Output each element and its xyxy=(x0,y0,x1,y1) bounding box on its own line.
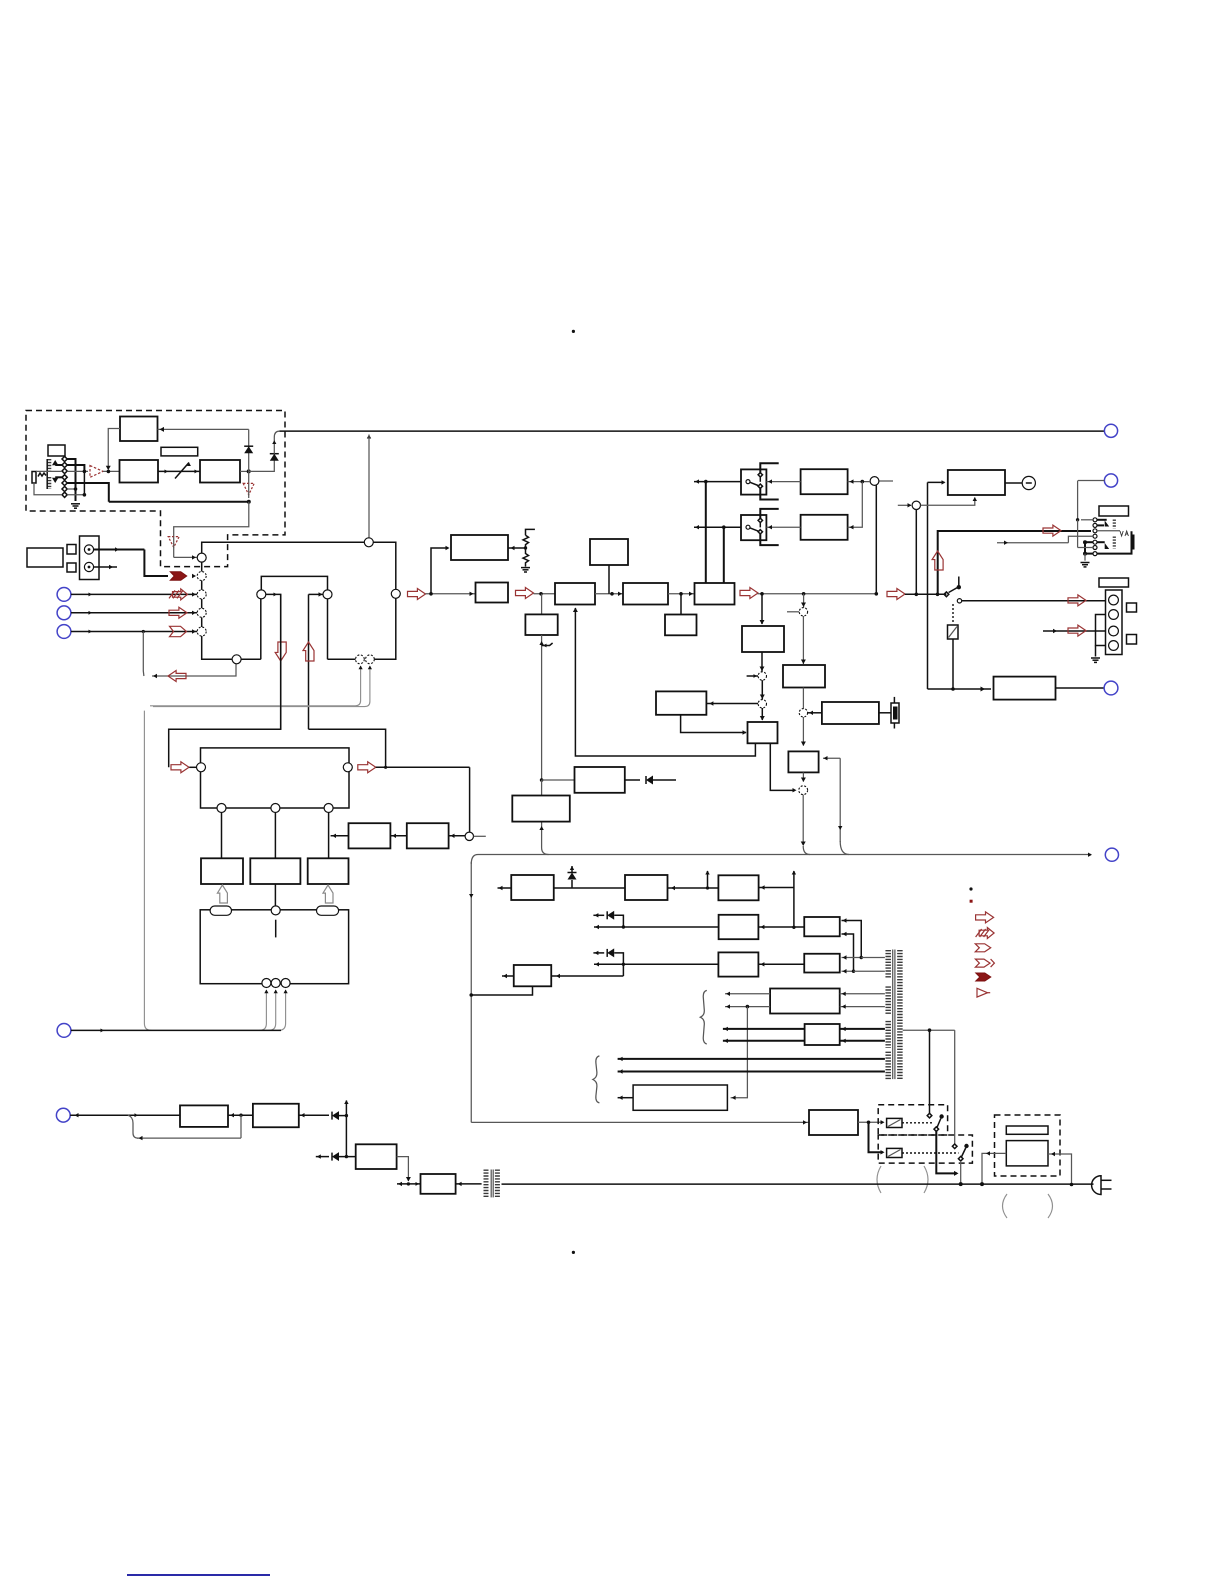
connector SP link bracket xyxy=(1096,615,1106,646)
wire Y1 bypass xyxy=(128,1115,138,1138)
node circles CPU bottom xyxy=(262,979,271,988)
arrow open chain 2 xyxy=(516,588,534,599)
dashed box RL1 xyxy=(878,1105,947,1135)
wire rail U2 xyxy=(594,963,718,965)
wire T input xyxy=(551,975,623,977)
block P2b xyxy=(718,875,758,900)
legend arrow chevron double xyxy=(975,959,990,967)
wire B13 out left rail xyxy=(575,608,755,756)
jack ground xyxy=(1084,554,1086,561)
block power amp xyxy=(948,470,1005,495)
node circle dashed q1 xyxy=(799,608,807,616)
block EQ box xyxy=(201,748,350,808)
node circles selector left edge xyxy=(197,553,206,562)
wire G diode out xyxy=(625,779,640,781)
wire feedback node circle xyxy=(898,504,911,506)
wire Y1-Y2 xyxy=(228,1114,253,1116)
block B14 xyxy=(783,665,825,688)
relay RL1 coil xyxy=(887,1118,902,1127)
wire S2 to headphone connector xyxy=(962,600,1106,602)
block fader B xyxy=(250,858,300,884)
selector wiper triangle down xyxy=(52,478,58,483)
arrow open chain 1 xyxy=(408,589,426,600)
red triangle down input1 xyxy=(168,537,179,548)
node circles EQ bottom xyxy=(217,804,226,813)
arrow gray up fader C xyxy=(323,885,333,903)
relay RL1 link dotted xyxy=(902,1122,934,1124)
jack c5 wiring xyxy=(1085,541,1093,543)
wire chain x803 down xyxy=(803,594,805,608)
wire wiper bus xyxy=(83,471,85,494)
wire power amp out xyxy=(1005,482,1022,484)
block function selector outline xyxy=(202,542,396,589)
wire amp line y689 xyxy=(927,482,929,689)
stub P1 left xyxy=(498,887,512,889)
block CPU xyxy=(200,910,348,984)
arrow hatched input 2 xyxy=(173,589,188,600)
wire mix down to chain xyxy=(875,485,877,593)
resistor divider R-B5 xyxy=(508,547,526,549)
relay RL2 coil xyxy=(887,1148,902,1157)
wire P1-P2a with diode xyxy=(554,887,625,889)
node circle EQ in xyxy=(197,763,206,772)
selector inner bridge xyxy=(260,599,262,659)
switch block SW-B xyxy=(741,515,766,540)
wire Y3 out xyxy=(397,1157,409,1181)
wire ctl stub xyxy=(474,835,486,837)
jack c5-c7 bus xyxy=(1084,542,1086,553)
wire B8 drop xyxy=(608,565,610,594)
relay RL2 link dotted xyxy=(902,1152,959,1154)
wire SW-A left xyxy=(694,481,741,483)
wire CPU risers xyxy=(259,990,266,1030)
wire PSU unit right to AC xyxy=(1048,1154,1072,1185)
wire from CPU riser left xyxy=(144,711,151,1031)
wire J-OUT2 blue lead xyxy=(1104,474,1117,487)
arrow open up jack xyxy=(932,551,943,570)
block B12 xyxy=(742,626,784,652)
AC line wire xyxy=(397,1183,421,1185)
block fader C xyxy=(308,858,349,884)
jack c1 wiring xyxy=(1081,519,1093,521)
legend dot black xyxy=(969,887,972,890)
stub arrow up mid xyxy=(707,871,709,888)
top bus tap arrow at x369 xyxy=(367,435,371,439)
phono jack body xyxy=(80,536,100,580)
connector SP ground xyxy=(1095,646,1097,657)
bracket SW-A top xyxy=(760,463,778,472)
block label A3 xyxy=(161,447,198,456)
block A4 xyxy=(200,460,240,483)
bracket SW-B top xyxy=(760,509,778,518)
wire EQ fader drops xyxy=(221,813,223,859)
wire RV1 to d7 xyxy=(34,483,62,495)
wire play in up xyxy=(308,594,310,729)
resistor W squiggle xyxy=(38,473,46,477)
wire drop to B12 xyxy=(761,594,763,624)
wire B16 down to bus xyxy=(802,772,804,781)
wire chain seg4 xyxy=(668,593,695,595)
wire node down to chain xyxy=(915,510,917,595)
page mark dot top xyxy=(572,330,575,333)
connector SP squares xyxy=(1127,603,1137,612)
mains switch S-M1 xyxy=(927,1113,932,1118)
wire monitor risers xyxy=(150,666,361,706)
wire T1 primary tap xyxy=(903,1029,955,1031)
selector switch S1 wafer strips xyxy=(47,459,51,471)
block B15 osc xyxy=(822,702,879,724)
block PSU unit xyxy=(1006,1141,1048,1166)
wire node up to D1 xyxy=(248,446,250,471)
block B9 xyxy=(623,583,668,605)
wire d2 to amp node xyxy=(67,465,84,471)
wire x541 drop xyxy=(541,594,543,615)
CPU inner tick xyxy=(275,920,277,938)
wire P2a-P2b xyxy=(668,887,719,889)
wire U2 right xyxy=(758,963,804,965)
node circle selector bottom xyxy=(232,655,241,664)
block PW driver xyxy=(809,1110,858,1135)
wire B10 drop xyxy=(680,594,682,615)
wire P2b right riser xyxy=(759,887,794,889)
brace group X xyxy=(593,1056,600,1103)
wire S-M2 down to AC xyxy=(960,1161,962,1184)
wire d1 to ground rail xyxy=(67,459,75,501)
bracket SW-A bottom xyxy=(760,488,778,499)
block B7 xyxy=(555,583,595,605)
wire remote line xyxy=(70,1114,180,1116)
node circle EQ ctl xyxy=(465,832,473,840)
wire x541 low xyxy=(540,778,544,782)
diode D-P vertical xyxy=(571,880,573,888)
diode group1 xyxy=(593,914,604,916)
block U1 xyxy=(719,915,759,939)
dashed enclosure tuner section xyxy=(26,411,285,567)
connector J-OUT blue circle xyxy=(1104,424,1117,437)
wire B12 to node xyxy=(761,652,763,672)
jack VA text xyxy=(1120,531,1128,536)
node circle EQ out xyxy=(343,763,352,772)
wire into power amp xyxy=(928,481,945,483)
wire PW out xyxy=(858,1121,883,1123)
jack c7 wiring xyxy=(1085,553,1093,555)
block Y3 xyxy=(356,1144,397,1169)
block R-A xyxy=(801,469,848,494)
block G reg3 xyxy=(575,767,625,793)
wire E to D xyxy=(390,835,406,837)
diode group2 xyxy=(593,952,604,954)
wire F to G xyxy=(542,779,575,781)
arrow open sp3 xyxy=(1068,625,1086,636)
wire mains switch feeds xyxy=(929,1030,931,1113)
arrow open out of EQ xyxy=(358,762,376,773)
wire EQ out loop xyxy=(376,766,470,768)
wire BL bottom to B13 xyxy=(681,715,746,733)
variable attenuator xyxy=(158,470,200,472)
wire chain seg1 xyxy=(426,593,476,595)
wire node to input circle 1 xyxy=(174,502,249,537)
wire d6 to ground rail xyxy=(67,488,75,490)
legend dot red xyxy=(970,900,973,903)
connector J-REM blue circle xyxy=(56,1108,70,1122)
node circle dashed p2 xyxy=(758,700,766,708)
wire BL to p2 xyxy=(706,703,758,705)
pill CPU right xyxy=(317,906,339,915)
block BL xyxy=(656,691,706,714)
relay K1 coil xyxy=(948,625,959,639)
wire d5 thick to node xyxy=(67,483,109,502)
wire sp3 xyxy=(1043,630,1106,632)
wire chain seg3 xyxy=(595,593,623,595)
block headphone amp xyxy=(994,677,1056,700)
block fader A xyxy=(201,858,243,884)
connector J-PRE blue circle xyxy=(1104,681,1118,695)
arrow chevron input 4 xyxy=(170,626,187,636)
block Y4 xyxy=(421,1174,456,1194)
wire phono L to selector xyxy=(94,549,145,551)
jack c4 wiring xyxy=(1068,536,1093,543)
selector wiper triangle up xyxy=(52,460,58,465)
block H reg xyxy=(525,614,557,635)
phono jack pin R xyxy=(84,562,93,571)
wire D to fader C drop xyxy=(331,835,349,837)
block V heater xyxy=(770,989,840,1014)
headphone jack contacts xyxy=(1093,518,1097,522)
wire B13 out right xyxy=(770,743,795,790)
wire p1 to p2 xyxy=(761,680,763,699)
block R-B xyxy=(801,515,848,540)
transformer T2 xyxy=(484,1170,489,1198)
connector J-AC blue circle xyxy=(1105,848,1118,861)
node circle selector right xyxy=(391,589,400,598)
wire mute drops to B11 xyxy=(705,482,707,583)
ground R-B5 xyxy=(521,567,530,569)
jack c3 wiring xyxy=(1097,530,1120,532)
jack c2 wiring xyxy=(1097,524,1104,526)
wire Y2-diode xyxy=(299,1114,329,1116)
block U2b xyxy=(804,954,840,973)
tick node q1 xyxy=(787,611,799,613)
top bus wire to output jack xyxy=(279,430,1104,432)
wire to RL2 xyxy=(869,1122,884,1152)
wire V to X drop xyxy=(731,1007,748,1098)
wire circle to E xyxy=(449,835,466,837)
dashed box RL2 xyxy=(878,1135,972,1163)
node circle CPU top xyxy=(271,906,280,915)
wire S-M1 down xyxy=(936,1131,957,1173)
arrow gray up fader A xyxy=(217,885,227,903)
diode D2 xyxy=(270,453,279,455)
block P2a xyxy=(625,875,668,900)
parens PSU group xyxy=(1003,1194,1008,1218)
block W rect xyxy=(805,1024,840,1045)
block E muting xyxy=(407,823,449,848)
block B6 xyxy=(476,583,509,603)
connector J-IN2 blue circle xyxy=(57,588,71,602)
wire U1b taps xyxy=(842,921,862,958)
wire jack feed thick xyxy=(938,531,1091,594)
brace group V xyxy=(700,990,707,1044)
block B10 below xyxy=(665,615,697,636)
block A1 xyxy=(120,417,158,442)
node circle dashed q2 xyxy=(799,709,807,717)
wire rail U1 xyxy=(594,926,719,928)
wire W lines xyxy=(723,1028,805,1030)
connector J-IN4 blue circle xyxy=(57,625,71,639)
block small label above selector xyxy=(48,445,65,456)
wire q1 to B14 xyxy=(802,616,804,664)
switch tick x541 xyxy=(542,643,553,646)
pill CPU left xyxy=(210,906,231,915)
resistor RV1 vertical xyxy=(32,472,36,484)
crystal X1 xyxy=(879,712,891,714)
ground selector xyxy=(71,503,80,505)
wire rail to T xyxy=(471,986,532,995)
wire node down to limiter xyxy=(248,471,250,483)
transformer T1 primary winding xyxy=(897,950,903,1079)
node circle dashed p1 xyxy=(758,672,766,680)
wire heater lines xyxy=(618,1058,885,1060)
wire to B5 xyxy=(431,548,448,594)
wire PSU rail to PW xyxy=(471,1121,809,1123)
arrow open input 3 xyxy=(169,607,187,618)
legend arrow hatched xyxy=(979,928,994,939)
wire K1 to AC sense xyxy=(952,639,954,689)
node circle mix xyxy=(870,477,879,486)
diode D1 xyxy=(244,445,253,447)
wire B16 right input from bus xyxy=(823,757,840,759)
block B5 xyxy=(451,535,508,560)
legend triangle xyxy=(977,988,988,997)
connector J-CTL blue circle xyxy=(57,1024,71,1038)
switch S2 contact xyxy=(944,592,949,597)
jack sleeve strips xyxy=(1113,520,1116,529)
wire A4 out to node xyxy=(240,470,249,472)
arrow open up play xyxy=(303,642,314,661)
arrow open jack feed xyxy=(1043,525,1061,536)
node circles monitor pair xyxy=(356,655,365,664)
wire input 4 xyxy=(71,631,197,633)
wire p2 to B13 xyxy=(761,708,763,720)
arrow open into EQ xyxy=(171,762,189,773)
wire U2b taps xyxy=(842,957,862,959)
connector J-IN3 blue circle xyxy=(57,606,71,620)
AC plug P1 xyxy=(1092,1176,1101,1195)
block D loudness xyxy=(349,823,391,848)
wire tape return branch xyxy=(142,630,145,633)
diode D-Y2 row xyxy=(316,1156,329,1158)
wire B14 down xyxy=(802,688,804,709)
arrow open sp1 xyxy=(1068,595,1086,606)
block A2 xyxy=(120,460,159,483)
connector SP label box xyxy=(1099,578,1129,587)
block PSU label xyxy=(1006,1126,1048,1134)
wire B15 to q2 xyxy=(808,712,822,714)
wire amp out to A2 xyxy=(103,470,120,472)
speaker terminal minus xyxy=(1022,476,1035,489)
wire U1 right xyxy=(758,926,804,928)
stub T left xyxy=(502,975,514,977)
block P1 xyxy=(511,875,554,900)
wire R-A to SW-A xyxy=(766,481,800,483)
dashed box PSU unit xyxy=(995,1115,1061,1176)
arrow open left tape xyxy=(168,671,186,682)
wire ctl bus xyxy=(71,1029,281,1031)
wire SW-B left xyxy=(694,526,741,528)
wire main gray amp input xyxy=(36,470,62,472)
transformer T1 core xyxy=(892,950,894,1080)
wire chain seg2 xyxy=(534,593,556,595)
wire Y4 to T2 xyxy=(456,1183,482,1185)
node circle selector top xyxy=(364,538,373,547)
connector SP body xyxy=(1106,590,1123,655)
switch block SW-A xyxy=(741,469,766,494)
jack c6 wiring xyxy=(1077,520,1079,548)
wire q2 to B16 xyxy=(802,717,804,746)
arrow open down rec xyxy=(275,642,286,661)
wire PSU unit left to AC xyxy=(982,1153,1006,1184)
wire play loop right xyxy=(309,729,386,767)
wire stub right of mix circle xyxy=(879,480,893,482)
node circle dashed q3 xyxy=(799,786,808,795)
wire A1 feedback left xyxy=(108,429,120,469)
wire chain seg5 xyxy=(758,593,877,595)
block Y1 xyxy=(180,1105,228,1127)
AC line wire main xyxy=(502,1183,1094,1185)
wire phono R stub xyxy=(94,566,117,568)
block T vreg xyxy=(514,965,552,986)
blue footer underline xyxy=(127,1574,270,1576)
wire chain seg6 xyxy=(905,593,946,595)
wire selector top to bus xyxy=(368,435,370,538)
block B8 above xyxy=(590,539,628,565)
wire fader B to CPU xyxy=(274,884,276,906)
block U2 xyxy=(718,952,758,976)
arrow open chain 4 xyxy=(887,589,905,600)
wire rec out down xyxy=(266,594,281,729)
wire D2 branch xyxy=(249,459,275,472)
relay K1 dashed link xyxy=(952,604,954,624)
mains switch S-M2 xyxy=(952,1144,957,1149)
phono jack pin L xyxy=(84,545,93,554)
bus wire main B+ xyxy=(471,855,1091,865)
wire d7 node xyxy=(67,494,84,496)
phono jack squares xyxy=(67,545,76,555)
tick node p1 xyxy=(747,675,758,677)
page mark dot bottom xyxy=(572,1251,575,1254)
bracket SW-B bottom xyxy=(760,534,778,545)
block Y2 xyxy=(253,1104,299,1128)
arrow open chain 3 xyxy=(740,588,758,599)
parens relay group xyxy=(877,1166,881,1193)
wire D2 up to top bus xyxy=(274,431,279,454)
switch S2 throw contact xyxy=(957,599,961,603)
wire A1 input from diode D1 xyxy=(158,428,249,430)
amp triangle U1 xyxy=(90,466,103,478)
wire R-B to SW-B xyxy=(766,526,800,528)
wire rec loop left xyxy=(169,594,281,767)
wire input 2 xyxy=(71,593,197,595)
block phono label xyxy=(27,548,63,567)
wire R-A right node xyxy=(848,481,871,483)
wire switch node stub xyxy=(945,593,947,595)
block U1b xyxy=(804,917,840,936)
legend arrow chevron xyxy=(975,944,990,952)
transformer T1 secondary windings xyxy=(885,950,891,978)
wire input 3 xyxy=(71,612,197,614)
wire x541 mid xyxy=(541,635,543,780)
wire Y riser xyxy=(345,1101,347,1157)
